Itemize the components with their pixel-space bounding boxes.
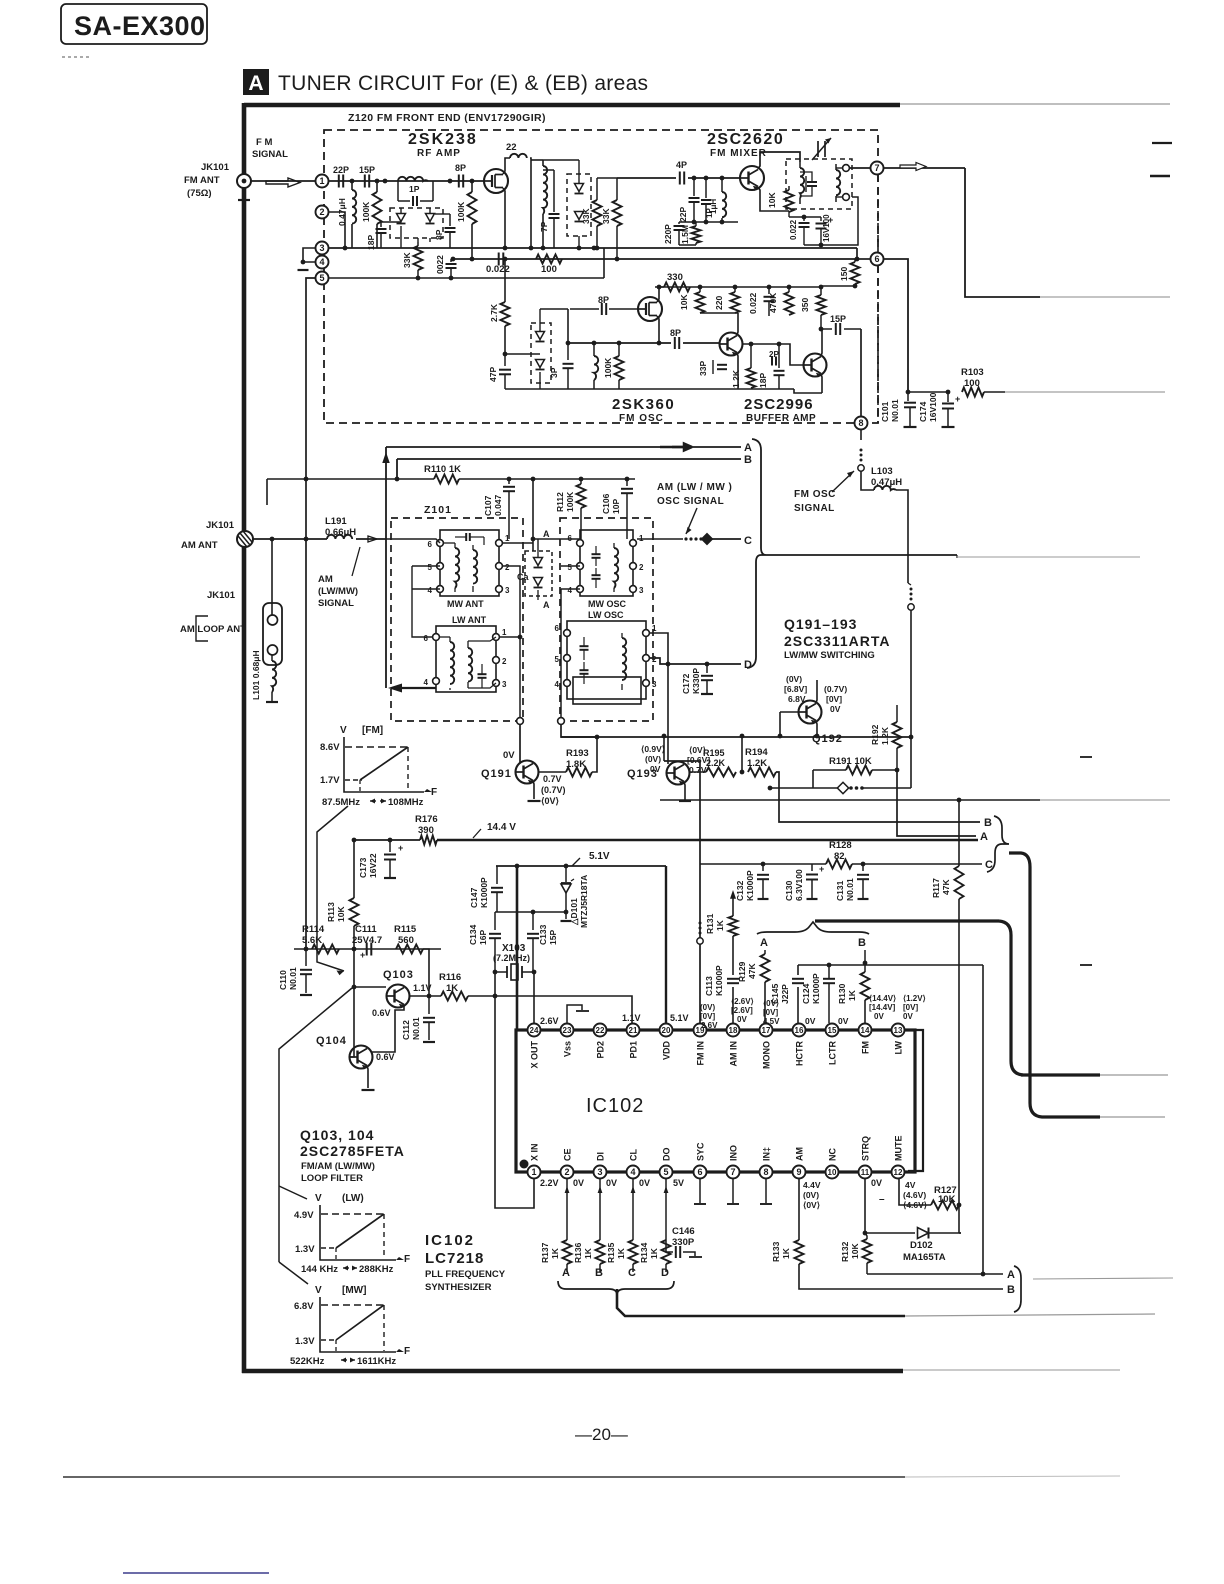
svg-text:C: C bbox=[628, 1267, 636, 1279]
front end dashed right edge bbox=[877, 175, 879, 252]
svg-text:7: 7 bbox=[874, 163, 879, 173]
wire 14.4V rail bbox=[354, 839, 420, 841]
svg-text:A: A bbox=[1007, 1269, 1015, 1281]
svg-text:0V: 0V bbox=[503, 750, 515, 761]
wire mixer decoupling bottom bbox=[804, 197, 858, 245]
wire STRQ down bbox=[864, 1179, 866, 1233]
svg-text:C130: C130 bbox=[784, 880, 794, 901]
svg-text:22: 22 bbox=[506, 142, 517, 153]
svg-text:MTZJ5R18TA: MTZJ5R18TA bbox=[579, 875, 589, 928]
svg-text:4.9V: 4.9V bbox=[294, 1210, 314, 1221]
svg-text:⟨2.6V⟩: ⟨2.6V⟩ bbox=[731, 997, 754, 1006]
wire buffer top rail bbox=[658, 286, 821, 288]
transistor 2SC2620 mixer bbox=[740, 166, 764, 190]
capacitor 0.022 osc bbox=[498, 253, 500, 266]
Z101 dashed box left bbox=[391, 518, 523, 721]
svg-text:R131: R131 bbox=[705, 913, 715, 934]
bracket A B bottom right bbox=[1014, 1266, 1021, 1312]
svg-text:100: 100 bbox=[541, 264, 557, 275]
svg-text:B: B bbox=[595, 1267, 603, 1279]
svg-text:0.47μH: 0.47μH bbox=[871, 477, 902, 488]
svg-text:16P: 16P bbox=[478, 930, 488, 945]
LW ANT pins bbox=[433, 634, 440, 641]
svg-text:⟨0.9V⟩: ⟨0.9V⟩ bbox=[641, 744, 665, 754]
svg-text:⟨14.4V⟩: ⟨14.4V⟩ bbox=[869, 994, 896, 1003]
inductor 1P tank coil bbox=[398, 177, 428, 181]
resistor R115 560 bbox=[396, 945, 423, 954]
svg-text:5.1V: 5.1V bbox=[589, 851, 610, 862]
svg-text:VDD: VDD bbox=[662, 1041, 672, 1061]
svg-text:(0.7V): (0.7V) bbox=[824, 684, 847, 694]
wire 5.1V corner to IC bbox=[516, 866, 519, 1030]
svg-text:47K: 47K bbox=[747, 963, 757, 979]
capacitor 47P bbox=[504, 354, 506, 366]
svg-text:16V100: 16V100 bbox=[822, 214, 831, 242]
svg-text:FM ANT: FM ANT bbox=[184, 175, 220, 186]
svg-text:2: 2 bbox=[505, 563, 510, 572]
model number box SA-EX300 bbox=[61, 4, 207, 44]
IC102 pin 14 FM bbox=[859, 1024, 872, 1037]
Q103 emitter to Q104 collector bbox=[372, 1005, 404, 1052]
wire 4P to mixer base bbox=[688, 177, 739, 179]
wire Q192 emitter link bbox=[741, 736, 743, 772]
svg-text:5: 5 bbox=[428, 563, 433, 572]
resistor R117 47K bbox=[958, 800, 960, 866]
transistor Q104 bbox=[350, 1046, 373, 1069]
capacitor 1P bbox=[412, 196, 414, 206]
svg-text:0V: 0V bbox=[639, 1178, 650, 1188]
wire MW ANT left links bbox=[386, 539, 440, 543]
inductor 1uH bbox=[721, 178, 723, 192]
capacitor 0022 bbox=[450, 259, 452, 262]
svg-text:LW: LW bbox=[894, 1040, 904, 1054]
svg-text:(0.7V): (0.7V) bbox=[541, 785, 566, 795]
graph MW curve bbox=[336, 1305, 384, 1340]
resistor R116 1K bbox=[441, 992, 468, 1001]
svg-text:C101: C101 bbox=[880, 401, 890, 422]
brace A B tuning bbox=[757, 922, 869, 934]
svg-text:IC102: IC102 bbox=[425, 1232, 475, 1249]
svg-text:2: 2 bbox=[319, 207, 324, 217]
svg-text:6: 6 bbox=[568, 534, 573, 543]
resistor R103 100 bbox=[962, 388, 984, 397]
svg-text:3: 3 bbox=[639, 586, 644, 595]
svg-text:330: 330 bbox=[667, 272, 683, 283]
resistor R128 82 bbox=[826, 860, 852, 869]
svg-text:2.2K: 2.2K bbox=[706, 758, 726, 768]
wire VDD drop bbox=[665, 866, 667, 1023]
svg-text:(LW/MW): (LW/MW) bbox=[318, 586, 358, 597]
svg-text:D: D bbox=[744, 659, 752, 671]
capacitor 1P mixer bbox=[705, 178, 707, 198]
resistor 330 bbox=[664, 283, 690, 292]
AM signal arrow bbox=[368, 536, 377, 542]
resistor 10K driver bbox=[699, 287, 701, 292]
svg-text:100K: 100K bbox=[361, 201, 371, 222]
svg-text:1.1V: 1.1V bbox=[622, 1013, 641, 1023]
svg-text:A: A bbox=[543, 600, 550, 610]
FM front end dashed enclosure Z120 bbox=[324, 130, 878, 423]
capacitor C133 15P bbox=[532, 912, 534, 930]
capacitor 0.022 driver bbox=[768, 287, 770, 294]
right edge dash c bbox=[1080, 756, 1092, 758]
Q103 base wire bbox=[354, 949, 386, 987]
svg-text:N0.01: N0.01 bbox=[845, 878, 855, 901]
svg-text:C133: C133 bbox=[538, 924, 548, 945]
svg-text:(4.6V): (4.6V) bbox=[903, 1190, 926, 1200]
svg-text:IC102: IC102 bbox=[586, 1095, 644, 1117]
varactor D right bbox=[426, 214, 435, 222]
capacitor 2P bbox=[771, 357, 773, 366]
svg-text:R132: R132 bbox=[840, 1241, 850, 1262]
svg-text:(0V): (0V) bbox=[645, 754, 661, 764]
svg-text:(0V): (0V) bbox=[700, 1003, 715, 1012]
svg-text:0V: 0V bbox=[838, 1016, 849, 1026]
capacitor C145 J22P bbox=[792, 978, 804, 980]
resistor R134 1K bbox=[665, 1179, 667, 1240]
pins 6 7 8 stubs bbox=[699, 1179, 701, 1203]
svg-text:5V: 5V bbox=[673, 1178, 684, 1188]
svg-text:5: 5 bbox=[319, 273, 324, 283]
wire pin14 963 junction bbox=[863, 961, 868, 966]
svg-text:△D101: △D101 bbox=[569, 898, 579, 926]
loop filter leader line bbox=[279, 988, 352, 1262]
crystal X103 bbox=[493, 970, 498, 975]
svg-text:D102: D102 bbox=[910, 1240, 933, 1251]
svg-text:R130: R130 bbox=[837, 983, 847, 1004]
wire R103 to edge bbox=[984, 391, 1005, 393]
resistor 100K osc bbox=[618, 343, 620, 356]
front end pin 4 bbox=[316, 256, 329, 269]
buffer emitter bbox=[821, 374, 822, 393]
svg-text:10K: 10K bbox=[850, 1243, 860, 1259]
svg-text:1.2K: 1.2K bbox=[880, 726, 890, 745]
inductor 0.47uH bbox=[351, 181, 353, 190]
wire pin7 down and right to edge bbox=[965, 168, 1040, 297]
svg-text:1.2K: 1.2K bbox=[731, 369, 741, 388]
svg-text:0.7V: 0.7V bbox=[543, 774, 562, 784]
LW OSC inner frame bbox=[573, 677, 641, 704]
Q192 emitter bbox=[816, 721, 817, 736]
capacitor C124 K1000P bbox=[823, 978, 835, 980]
svg-text:2SC2620: 2SC2620 bbox=[707, 131, 784, 148]
svg-text:100K: 100K bbox=[603, 357, 613, 378]
svg-text:1611KHz: 1611KHz bbox=[357, 1356, 396, 1367]
front end pin 5 bbox=[316, 272, 329, 285]
svg-text:0V: 0V bbox=[737, 1015, 747, 1024]
connector JK101 FM ANT bbox=[237, 174, 251, 188]
svg-text:⟨1.2V⟩: ⟨1.2V⟩ bbox=[903, 994, 926, 1003]
svg-text:J22P: J22P bbox=[780, 984, 790, 1004]
svg-text:22: 22 bbox=[596, 1026, 605, 1035]
svg-text:1P: 1P bbox=[409, 184, 420, 194]
pin8 shield feed and L103 bbox=[860, 430, 862, 440]
svg-text:18P: 18P bbox=[758, 373, 768, 388]
svg-text:390: 390 bbox=[418, 825, 434, 836]
svg-text:3: 3 bbox=[502, 680, 507, 689]
wire pin18 AM IN chain bbox=[732, 987, 734, 1023]
svg-text:7P: 7P bbox=[539, 221, 549, 232]
svg-text:MW OSC: MW OSC bbox=[588, 599, 626, 609]
svg-text:144 KHz: 144 KHz bbox=[301, 1264, 338, 1275]
IC102 pin 7 INO bbox=[727, 1166, 740, 1179]
svg-text:2: 2 bbox=[502, 657, 507, 666]
wire osc row to buffer transistor bbox=[683, 342, 719, 344]
svg-text:0.6V: 0.6V bbox=[376, 1052, 395, 1062]
svg-text:+: + bbox=[360, 950, 365, 960]
wire MW OSC out to C bbox=[637, 538, 683, 540]
svg-text:8P: 8P bbox=[598, 295, 609, 305]
capacitor C110 N0.01 bbox=[305, 949, 307, 966]
IF coil first bbox=[542, 160, 544, 166]
capacitor 18P bbox=[778, 344, 780, 368]
svg-text:0V: 0V bbox=[805, 1016, 816, 1026]
svg-text:3P: 3P bbox=[549, 367, 559, 378]
svg-text:LOOP FILTER: LOOP FILTER bbox=[301, 1173, 363, 1184]
wire FM ANT to pin 1 bbox=[251, 180, 315, 182]
FET drain wire to coil 22 bbox=[503, 158, 510, 174]
resistor 150 bbox=[854, 259, 856, 262]
svg-text:CE: CE bbox=[563, 1148, 573, 1161]
svg-text:JK101: JK101 bbox=[206, 520, 235, 531]
svg-text:13: 13 bbox=[894, 1026, 903, 1035]
resistor 100K vertical RF input bbox=[376, 181, 378, 192]
osc signal leader arrow bbox=[686, 508, 697, 534]
svg-text:X IN: X IN bbox=[530, 1143, 540, 1161]
A line bottom arrow to LW ANT bbox=[388, 684, 402, 693]
wire pin3 row bbox=[329, 247, 857, 249]
svg-text:1μH: 1μH bbox=[709, 199, 718, 214]
Ca varactor dashed box bbox=[525, 551, 552, 596]
svg-text:R103: R103 bbox=[961, 367, 984, 378]
wire pin2 stub bbox=[329, 212, 345, 248]
svg-text:JK101: JK101 bbox=[207, 590, 236, 601]
svg-text:1: 1 bbox=[319, 176, 324, 186]
mixer output transformer dashed box bbox=[786, 159, 852, 209]
main schematic border bottom bbox=[242, 1369, 903, 1374]
capacitor 22P bbox=[338, 175, 340, 188]
svg-text:47K: 47K bbox=[941, 879, 951, 895]
transistor Q193 bbox=[667, 762, 690, 785]
resistor 33K below varactor bbox=[414, 246, 423, 270]
wire osc row 343 bbox=[568, 342, 671, 344]
resistor 100K gate bbox=[471, 181, 473, 192]
LW ANT cap bbox=[478, 673, 487, 675]
svg-text:1.1V: 1.1V bbox=[413, 983, 432, 993]
resistor R114 5.6K bbox=[312, 945, 339, 954]
Vss pin23 ground stub bbox=[567, 1005, 582, 1023]
svg-text:288KHz: 288KHz bbox=[359, 1264, 394, 1275]
svg-text:[0V]: [0V] bbox=[903, 1003, 918, 1012]
wire pin5 long vertical to loop filter bbox=[306, 278, 315, 949]
svg-text:K1000P: K1000P bbox=[714, 965, 724, 996]
svg-text:C131: C131 bbox=[835, 880, 845, 901]
svg-text:R117: R117 bbox=[931, 878, 941, 898]
varactor Ca lower bbox=[534, 578, 543, 586]
right edge dash b bbox=[1150, 175, 1170, 178]
svg-text:MW ANT: MW ANT bbox=[447, 599, 484, 609]
MW ANT coil b bbox=[473, 550, 477, 584]
svg-text:33K: 33K bbox=[581, 208, 591, 224]
svg-text:C112: C112 bbox=[401, 1020, 411, 1040]
capacitor C147 K1000P bbox=[496, 866, 498, 884]
svg-text:2SC2996: 2SC2996 bbox=[744, 396, 814, 413]
svg-text:R135: R135 bbox=[606, 1242, 616, 1263]
wire R194 to B lower bbox=[776, 772, 980, 822]
svg-text:Q103, 104: Q103, 104 bbox=[300, 1127, 374, 1143]
svg-text:0V: 0V bbox=[830, 704, 841, 714]
IC102 pin1 marker bbox=[520, 1160, 529, 1169]
graph MW axes bbox=[320, 1297, 396, 1352]
svg-text:Z101: Z101 bbox=[424, 504, 452, 516]
MW OSC sub box bbox=[580, 530, 633, 596]
IC102 pin 2 CE bbox=[561, 1166, 574, 1179]
svg-text:B: B bbox=[744, 454, 752, 466]
IC102 pin 22 PD2 bbox=[594, 1024, 607, 1037]
svg-text:0.022: 0.022 bbox=[789, 219, 798, 240]
svg-text:10P: 10P bbox=[611, 499, 621, 514]
svg-text:R128: R128 bbox=[829, 840, 852, 851]
IC102 pin 20 VDD bbox=[660, 1024, 673, 1037]
svg-text:100K: 100K bbox=[565, 491, 575, 512]
svg-text:87.5MHz: 87.5MHz bbox=[322, 797, 360, 808]
svg-text:+: + bbox=[819, 864, 824, 874]
svg-text:6: 6 bbox=[874, 254, 879, 264]
svg-text:IN‡: IN‡ bbox=[762, 1147, 772, 1161]
svg-text:0V: 0V bbox=[871, 1178, 882, 1188]
svg-text:100: 100 bbox=[964, 378, 980, 389]
right edge dash a bbox=[1152, 142, 1172, 144]
wire pin1 row bbox=[329, 180, 484, 182]
svg-text:+: + bbox=[398, 843, 403, 853]
front end pin 7 bbox=[849, 167, 871, 169]
svg-text:TUNER CIRCUIT For (E) & (EB) a: TUNER CIRCUIT For (E) & (EB) areas bbox=[278, 72, 648, 95]
wire trunk C bus to right bbox=[766, 554, 957, 556]
IC102 pin 3 DI bbox=[594, 1166, 607, 1179]
svg-text:1K: 1K bbox=[847, 989, 857, 1001]
varactor dashed box osc bbox=[531, 323, 551, 383]
varactor IF upper bbox=[575, 184, 584, 192]
wire pin11 stub bbox=[864, 1179, 866, 1233]
capacitor C134 16P bbox=[494, 912, 496, 930]
svg-text:FM OSC: FM OSC bbox=[619, 413, 664, 424]
resistor R193 1.8K bbox=[539, 771, 566, 773]
svg-text:B: B bbox=[984, 817, 992, 829]
svg-text:R134: R134 bbox=[639, 1242, 649, 1263]
mixer emitter wire bbox=[758, 187, 789, 211]
svg-text:K1000P: K1000P bbox=[811, 973, 821, 1004]
svg-text:LC7218: LC7218 bbox=[425, 1250, 484, 1267]
Q193 emitter bbox=[684, 782, 685, 800]
bracket B A C right bbox=[987, 816, 1009, 872]
wire osc mid vertical bbox=[504, 259, 506, 302]
svg-text:B: B bbox=[1007, 1284, 1015, 1296]
A B C D collection bracket bbox=[747, 439, 766, 668]
varactor IF lower bbox=[575, 212, 584, 220]
A line arrowhead bbox=[672, 444, 692, 451]
wire FM IN feed bbox=[664, 761, 700, 1023]
varactor osc lower bbox=[536, 360, 545, 368]
wire loop ant to AM line bbox=[271, 539, 273, 615]
svg-text:24: 24 bbox=[530, 1026, 539, 1035]
IC102 pin 12 MUTE bbox=[892, 1166, 905, 1179]
capacitor C113 K1000P bbox=[727, 978, 739, 980]
capacitor 4P mixer input bbox=[679, 172, 681, 185]
svg-text:Ca: Ca bbox=[517, 572, 529, 582]
front end pin 1 bbox=[316, 175, 329, 188]
svg-text:R176: R176 bbox=[415, 814, 438, 825]
wire C row through MW OSC bbox=[533, 538, 580, 540]
Q104 emitter ground bbox=[367, 1066, 368, 1088]
wire pin19 FM IN upper bbox=[699, 932, 702, 935]
IC102 pin 17 MONO bbox=[760, 1024, 773, 1037]
Q103 collector to R116 row bbox=[404, 981, 406, 988]
svg-text:MUTE: MUTE bbox=[894, 1136, 904, 1162]
svg-text:16V100: 16V100 bbox=[928, 392, 938, 422]
svg-text:N0.01: N0.01 bbox=[890, 399, 900, 422]
svg-text:A: A bbox=[562, 1267, 570, 1279]
svg-text:AM ANT: AM ANT bbox=[181, 540, 218, 551]
svg-text:522KHz: 522KHz bbox=[290, 1356, 325, 1367]
resistor 350 bbox=[820, 287, 822, 295]
svg-text:Q191: Q191 bbox=[481, 768, 512, 780]
svg-text:3: 3 bbox=[597, 1167, 602, 1177]
svg-text:R112: R112 bbox=[555, 492, 565, 512]
svg-text:7: 7 bbox=[730, 1167, 735, 1177]
capacitor C146 330P bbox=[666, 1240, 673, 1252]
svg-text:C132: C132 bbox=[735, 880, 745, 901]
svg-text:K1000P: K1000P bbox=[745, 870, 755, 901]
front end pin 8 bbox=[855, 417, 868, 430]
svg-text:C110: C110 bbox=[278, 970, 288, 990]
wire mixer cluster lower bus bbox=[679, 221, 738, 223]
svg-text:2.2V: 2.2V bbox=[540, 1178, 559, 1188]
svg-text:8P: 8P bbox=[455, 163, 466, 173]
svg-text:150: 150 bbox=[839, 267, 849, 281]
svg-text:2.7K: 2.7K bbox=[489, 303, 499, 322]
svg-text:HCTR: HCTR bbox=[795, 1041, 805, 1066]
svg-text:0V: 0V bbox=[573, 1178, 584, 1188]
X IN feed loop bbox=[495, 996, 534, 1208]
inductor L191 0.66uH bbox=[327, 535, 352, 539]
wire LW OSC pin2 to D bbox=[650, 660, 741, 664]
IC102 pin 5 DO bbox=[660, 1166, 673, 1179]
wire row 737 bbox=[561, 736, 911, 738]
svg-text:Q103: Q103 bbox=[383, 969, 414, 981]
thick bus BAC to lower right bbox=[1009, 853, 1100, 1117]
svg-text:1: 1 bbox=[502, 628, 507, 637]
driver collector bbox=[737, 313, 738, 335]
front end pin 2 bbox=[316, 206, 329, 219]
svg-text:33K: 33K bbox=[601, 208, 611, 224]
svg-text:R136: R136 bbox=[573, 1242, 583, 1263]
svg-text:5: 5 bbox=[568, 563, 573, 572]
wire MW pins vertical to Q191 bbox=[503, 566, 520, 717]
svg-text:RF AMP: RF AMP bbox=[417, 148, 461, 159]
diode D102 MA165TA bbox=[865, 1232, 915, 1234]
svg-text:Q104: Q104 bbox=[316, 1035, 347, 1047]
Q192 base wire bbox=[780, 711, 799, 713]
LW ANT coil b bbox=[468, 648, 472, 682]
MW ANT coil a bbox=[455, 548, 459, 588]
resistor R192 1.2K bbox=[896, 705, 898, 722]
transistor 2SK360 bbox=[638, 297, 662, 321]
svg-text:14.4 V: 14.4 V bbox=[487, 822, 516, 833]
svg-text:FM OSC: FM OSC bbox=[794, 489, 836, 500]
svg-text:8P: 8P bbox=[434, 229, 444, 240]
Q192 collector bbox=[816, 680, 817, 703]
svg-text:PLL FREQUENCY: PLL FREQUENCY bbox=[425, 1269, 506, 1280]
